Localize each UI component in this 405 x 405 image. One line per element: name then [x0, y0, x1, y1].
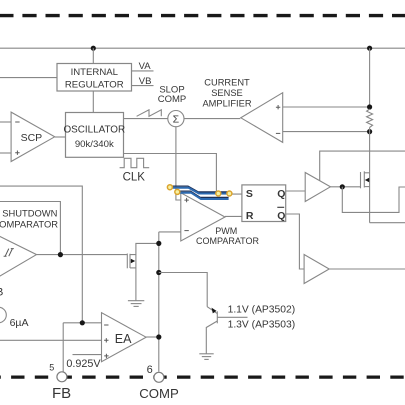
wire FB to EA inverting input	[63, 322, 101, 324]
node VA stub	[132, 70, 154, 72]
svg-text:AMPLIFIER: AMPLIFIER	[202, 99, 251, 109]
transistor Q1 PNP clamp	[206, 307, 247, 354]
wire PWM inverting input	[159, 231, 181, 233]
ground clamp	[128, 301, 144, 307]
svg-text:EA: EA	[115, 332, 132, 346]
transistor M1 high-side MOSFET	[361, 171, 370, 188]
svg-text:B: B	[0, 287, 3, 299]
wire shutdown output to clamp gate	[37, 254, 128, 256]
wire regulator left input	[0, 77, 57, 79]
svg-text:SCP: SCP	[21, 132, 43, 144]
wire summer output down to PWM comparator	[176, 127, 181, 200]
svg-text:COMPARATOR: COMPARATOR	[196, 236, 260, 246]
pin 5 FB	[57, 372, 67, 382]
wire SCP output	[55, 136, 66, 138]
junction clamp drain	[156, 241, 161, 246]
op-amp EA error amplifier	[102, 313, 147, 362]
wire shutdown output riser	[0, 202, 60, 255]
CLK waveform	[120, 158, 150, 167]
svg-text:COMP: COMP	[158, 94, 187, 105]
wire PWM output to latch R	[225, 215, 242, 217]
wire CSA non-inverting input	[283, 106, 370, 108]
svg-text:COMPARATOR: COMPARATOR	[0, 219, 58, 230]
IC boundary bottom dashed line	[0, 376, 405, 379]
transistor M2 COMP clamp	[127, 243, 159, 300]
latch U6 SR	[242, 185, 286, 222]
oscillator U2	[66, 113, 124, 158]
wire SCP non-inverting input	[0, 152, 11, 154]
node marker 4	[227, 191, 232, 196]
wire gate node loop to edge	[342, 187, 405, 213]
junction resistor bottom	[367, 129, 372, 134]
wire buffer to gate node	[330, 186, 360, 188]
sawtooth slope waveform	[137, 110, 162, 117]
wire 0.925V reference to EA input	[73, 354, 102, 356]
internal regulator U1	[57, 64, 132, 92]
comparator PWM U5	[181, 193, 225, 241]
svg-text:Σ: Σ	[173, 114, 180, 126]
wire switch node LX to edge	[370, 222, 405, 224]
svg-text:SENSE: SENSE	[211, 88, 243, 98]
wire FB riser to left block	[0, 186, 82, 323]
wire regulator to oscillator	[92, 91, 94, 113]
wire bus to regulator top	[92, 48, 94, 63]
svg-text:0.925V: 0.925V	[66, 358, 101, 370]
node VB stub	[132, 85, 154, 87]
node marker 1	[167, 185, 172, 190]
node marker 3	[216, 191, 221, 196]
svg-text:VA: VA	[139, 61, 152, 72]
svg-text:CLK: CLK	[123, 171, 146, 183]
wire summer to current sense amp	[184, 118, 240, 120]
wire sense rail upper	[369, 48, 371, 109]
node marker 2	[175, 189, 180, 194]
svg-text:Q: Q	[277, 210, 285, 222]
svg-text:5: 5	[49, 363, 54, 373]
comparator shutdown U9	[0, 231, 37, 284]
wire COMP to BJT emitter	[159, 273, 207, 307]
junction bus-regulator	[91, 46, 96, 51]
IC boundary top dashed line	[0, 14, 405, 17]
svg-text:FB: FB	[52, 385, 71, 402]
wire oscillator to slope-comp summer	[124, 118, 168, 120]
wire annotation highlight upper (dark edge)	[170, 186, 231, 192]
wire CSA inverting input	[283, 131, 370, 133]
comparator SCP	[11, 112, 55, 161]
junction COMP to clamp BJT	[156, 270, 161, 275]
wire SCP inverting input	[0, 121, 11, 123]
junction resistor top	[367, 104, 372, 109]
svg-text:VB: VB	[139, 76, 152, 87]
svg-text:1.1V (AP3502): 1.1V (AP3502)	[228, 304, 296, 315]
ground BJT	[199, 354, 213, 360]
junction gate node	[340, 184, 345, 189]
svg-text:6: 6	[147, 364, 153, 376]
resistor Rsense	[367, 109, 373, 127]
svg-text:OSCILLATOR: OSCILLATOR	[63, 125, 125, 136]
svg-text:Q: Q	[277, 188, 285, 200]
svg-text:90k/340k: 90k/340k	[75, 139, 114, 150]
svg-text:6µA: 6µA	[10, 317, 29, 329]
op-amp current sense amplifier U4	[241, 93, 283, 143]
svg-text:REGULATOR: REGULATOR	[65, 79, 124, 90]
svg-text:1.3V (AP3503): 1.3V (AP3503)	[228, 319, 296, 330]
current source 6uA	[0, 307, 6, 323]
buffer U7 high-side driver	[305, 173, 330, 202]
wire bootstrap over buffer	[320, 151, 405, 181]
wire annotation highlight upper (blue)	[170, 188, 231, 194]
pin 6 COMP	[154, 372, 164, 382]
wire COMP rail	[158, 232, 160, 372]
junction FB riser	[80, 320, 85, 325]
wire VIN top bus	[0, 47, 405, 49]
wire annotation highlight lower (dark edge)	[177, 191, 229, 197]
wire low-side buffer output to edge	[329, 268, 405, 270]
summer U3	[168, 111, 184, 127]
svg-text:R: R	[246, 210, 254, 222]
svg-text:CURRENT: CURRENT	[204, 77, 250, 87]
wire latch Qbar to low-side buffer	[286, 214, 304, 269]
junction shutdown output	[58, 252, 63, 257]
wire oscillator CLK to latch S	[124, 154, 242, 195]
junction EA output on COMP rail	[156, 334, 161, 339]
wire soft-start to EA input	[0, 339, 102, 341]
svg-text:S: S	[246, 188, 253, 200]
svg-text:SHUTDOWN: SHUTDOWN	[2, 207, 57, 218]
svg-text:INTERNAL: INTERNAL	[71, 67, 119, 78]
buffer U8 low-side driver	[304, 255, 329, 284]
svg-text:COMP: COMP	[139, 386, 179, 401]
wire FB pin riser	[62, 323, 64, 372]
wire latch Q to high-side buffer	[286, 190, 306, 192]
wire EA output	[146, 336, 159, 338]
wire sense rail lower / MOSFET drain-source rail	[369, 127, 371, 222]
junction bus-sense rail	[367, 46, 372, 51]
wire annotation highlight lower (blue)	[177, 193, 229, 199]
svg-text:PWM: PWM	[215, 226, 237, 236]
